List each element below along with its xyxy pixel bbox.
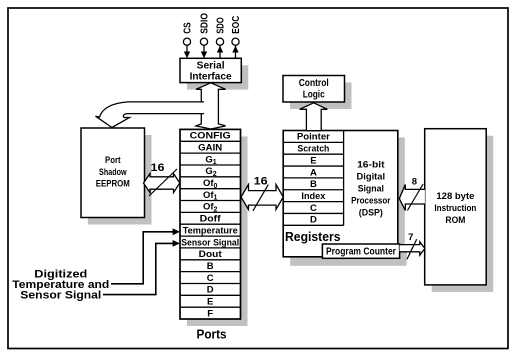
svg-text:D: D [310, 215, 317, 226]
svg-text:F: F [207, 308, 213, 319]
svg-text:C: C [310, 203, 317, 214]
svg-text:16: 16 [151, 162, 165, 174]
box U4 DSP with Registers [283, 131, 405, 266]
svg-text:Ports: Ports [197, 327, 227, 341]
svg-text:Temperature: Temperature [183, 225, 238, 236]
svg-text:Pointer: Pointer [297, 132, 330, 143]
bus arrow Serial Interface to Port Shadow EEPROM (bent) [96, 102, 205, 128]
svg-text:C: C [207, 273, 214, 284]
box U3 Ports register stack [180, 129, 248, 341]
svg-text:SDO: SDO [216, 17, 227, 34]
svg-text:Program Counter: Program Counter [326, 246, 396, 257]
svg-text:Logic: Logic [303, 89, 325, 100]
wire digitized sensor signal to Sensor Signal port [103, 240, 180, 295]
svg-text:GAIN: GAIN [198, 143, 222, 154]
svg-text:128 byte: 128 byte [436, 191, 474, 202]
svg-text:Control: Control [299, 78, 329, 89]
svg-text:8: 8 [412, 177, 417, 188]
svg-text:Digital: Digital [357, 172, 386, 183]
svg-text:EOC: EOC [231, 16, 242, 34]
svg-text:CONFIG: CONFIG [190, 131, 231, 142]
svg-text:Processor: Processor [351, 196, 391, 207]
bus arrow 16 EEPROM to Ports (bidirectional) [144, 162, 180, 196]
label Digitized Temperature and Sensor Signal [12, 269, 109, 302]
box U1 Serial Interface [180, 58, 248, 89]
box U2 Port Shadow EEPROM [81, 128, 152, 225]
svg-text:Port: Port [105, 155, 121, 166]
pin CS [183, 22, 194, 58]
svg-text:Interface: Interface [190, 72, 232, 83]
svg-text:7: 7 [408, 232, 413, 243]
svg-text:E: E [310, 155, 316, 166]
bus arrow Serial Interface to CONFIG (bidirectional) [196, 83, 226, 129]
svg-text:SDIO: SDIO [200, 13, 211, 34]
svg-text:E: E [207, 297, 213, 308]
svg-text:Serial: Serial [197, 60, 225, 71]
svg-text:16-bit: 16-bit [357, 160, 385, 171]
svg-text:Scratch: Scratch [297, 144, 329, 155]
svg-text:Doff: Doff [200, 214, 222, 225]
bus arrow 16 Ports to Registers (bidirectional) [241, 176, 283, 212]
svg-text:Dout: Dout [199, 249, 223, 260]
svg-text:ROM: ROM [445, 215, 465, 226]
bus arrow 7 Program Counter to ROM [400, 232, 425, 259]
svg-text:B: B [207, 261, 214, 272]
svg-text:B: B [310, 179, 317, 190]
svg-text:Index: Index [301, 191, 326, 202]
pin SDO [216, 17, 227, 58]
svg-text:Registers: Registers [285, 230, 341, 244]
bus arrow Pointer to Control Logic (up) [300, 103, 328, 131]
svg-text:Sensor Signal: Sensor Signal [181, 237, 239, 248]
svg-text:EEPROM: EEPROM [96, 179, 130, 190]
bus arrow 8 ROM to DSP [399, 177, 425, 211]
svg-text:Instruction: Instruction [434, 203, 476, 214]
pin EOC [231, 16, 242, 59]
svg-text:16: 16 [254, 176, 268, 188]
svg-text:CS: CS [183, 22, 194, 34]
box U7 128 byte Instruction ROM [425, 129, 494, 292]
svg-text:Sensor Signal: Sensor Signal [20, 290, 101, 302]
box U6 Program Counter [322, 244, 406, 266]
pin SDIO [200, 13, 211, 58]
svg-text:Shadow: Shadow [99, 167, 127, 178]
svg-text:A: A [310, 167, 317, 178]
svg-text:D: D [207, 285, 214, 296]
wire digitized temperature to Temperature port [111, 228, 180, 283]
svg-text:Signal: Signal [358, 184, 384, 195]
svg-text:(DSP): (DSP) [359, 208, 383, 219]
box U5 Control Logic [283, 76, 352, 110]
